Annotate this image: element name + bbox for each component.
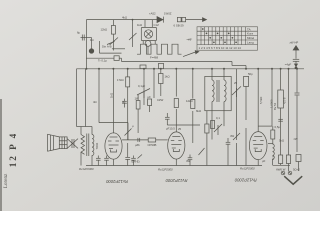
resistor horizontal (148, 138, 156, 142)
tube3 top frame (257, 69, 259, 132)
wires to tube3 right (268, 143, 273, 145)
crossed wires speaker-transformer (67, 139, 78, 149)
svg-text:zW: zW (294, 137, 298, 141)
resistor R4 (136, 101, 140, 110)
svg-text:1W0Z: 1W0Z (164, 12, 172, 16)
bottom rail (86, 165, 262, 167)
svg-text:≈4pF: ≈4pF (285, 63, 292, 67)
oscillator circle2 (145, 41, 151, 47)
tube V1 (105, 133, 122, 159)
svg-text:0,1: 0,1 (216, 116, 220, 120)
wire h y48.8 (112, 48, 125, 50)
junction dots on bus (85, 68, 298, 70)
svg-text:F=468: F=468 (150, 56, 158, 60)
svg-text:Rv12P2000: Rv12P2000 (234, 178, 257, 183)
flipped tube labels (105, 178, 256, 184)
middle coupling (86, 69, 262, 166)
svg-text:1kΩ: 1kΩ (165, 75, 170, 79)
wire to arrow (186, 19, 203, 21)
svg-text:Rv12P2000: Rv12P2000 (79, 167, 94, 171)
svg-text:1kΩ: 1kΩ (110, 93, 114, 98)
svg-text:4W: 4W (186, 159, 191, 163)
capacitor right column (278, 118, 283, 120)
diode D1 (157, 17, 163, 23)
resistor R5 (174, 99, 178, 108)
svg-text:5,5kΩ: 5,5kΩ (259, 97, 263, 104)
svg-text:1W: 1W (135, 97, 140, 101)
svg-text:5kΩ: 5kΩ (279, 139, 284, 143)
arrow head right (203, 18, 207, 22)
wire osc to top line (144, 20, 146, 28)
jack symbols (281, 171, 285, 175)
capacitor row y100 (124, 99, 126, 101)
verticals from bus (76, 69, 78, 127)
svg-text:μ#b: μ#b (135, 143, 140, 147)
transformer Tr1 zigzag primary (81, 135, 85, 155)
small comp on bus (140, 65, 146, 69)
trimmer C (244, 76, 249, 86)
anode frame tube1 (99, 122, 128, 124)
tube V3 (249, 132, 267, 160)
table contact dots (202, 28, 237, 43)
cap C left of tube1 (97, 156, 99, 159)
wires transformer (80, 127, 82, 135)
wire top horizontal (86, 19, 157, 21)
svg-text:1 2 3 4 5 6 7 8 9 10 11 12 13: 1 2 3 4 5 6 7 8 9 10 11 12 13 14 (199, 46, 242, 50)
component value labels (77, 12, 300, 172)
coil L2 (224, 80, 226, 102)
svg-text:(Ds-E): (Ds-E) (132, 160, 140, 164)
svg-text:12kΩ: 12kΩ (186, 99, 193, 103)
capacitor C (127, 143, 129, 157)
svg-text:C1Z: C1Z (154, 23, 160, 27)
svg-text:Rv12P2000: Rv12P2000 (165, 178, 188, 183)
mixer U1 circle with X (144, 30, 152, 38)
svg-text:μF: μF (262, 159, 266, 163)
resistor R6 (191, 100, 195, 109)
svg-text:Rv12P2000: Rv12P2000 (158, 167, 173, 171)
svg-text:4kΩ: 4kΩ (122, 15, 127, 19)
variable arrow mid-left (125, 129, 132, 136)
tubes (105, 132, 267, 166)
svg-text:700Ω: 700Ω (95, 143, 99, 150)
wire h y57 (86, 57, 114, 59)
variable arrow C trim (129, 33, 137, 40)
svg-text:12kΩ: 12kΩ (101, 28, 108, 32)
left page edge shadow (0, 99, 1, 211)
resistor R3 (159, 74, 163, 84)
svg-text:4W: 4W (230, 134, 235, 138)
core lines (216, 80, 218, 102)
svg-text:12 P 4: 12 P 4 (8, 132, 18, 167)
svg-text:6kΩ: 6kΩ (196, 109, 201, 113)
svg-text:1Ω: 1Ω (90, 38, 94, 42)
svg-text:25: 25 (178, 127, 182, 131)
cap C right of tube1 (133, 156, 135, 159)
svg-text:Lang: Lang (247, 41, 254, 45)
svg-text:AW6 W: AW6 W (276, 167, 286, 171)
svg-text:0,1μF: 0,1μF (138, 84, 145, 88)
wire h (122, 139, 148, 141)
wire from node A down (132, 20, 134, 47)
svg-text:Tr 0,1μ: Tr 0,1μ (98, 59, 107, 63)
ground chassis (284, 176, 302, 184)
svg-text:zW HP: zW HP (290, 41, 299, 45)
svg-text:25: 25 (234, 81, 238, 85)
svg-text:μF: μF (122, 100, 126, 104)
node A (132, 19, 134, 21)
capacitor C6 chain (166, 113, 168, 117)
capacitor C1 stub (81, 37, 87, 39)
svg-text:17kΩ: 17kΩ (117, 78, 124, 82)
svg-text:1kΩ: 1kΩ (137, 23, 142, 27)
rotated value labels (95, 93, 286, 160)
svg-text:+A52: +A52 (149, 12, 156, 16)
svg-text:Mittel: Mittel (247, 36, 255, 40)
svg-text:≈#8°: ≈#8° (187, 38, 193, 42)
svg-text:Kurz: Kurz (247, 32, 254, 36)
svg-text:4,5-8: 4,5-8 (283, 97, 287, 104)
capacitor C5 (148, 99, 152, 106)
cap right of tube2 (189, 155, 191, 158)
series capacitor on line (137, 138, 139, 142)
switch lever S1 (183, 52, 196, 57)
antenna (293, 46, 299, 69)
svg-text:6μ: 6μ (77, 31, 81, 35)
tube V2 (168, 132, 185, 159)
stage2 parts (205, 124, 209, 133)
wire top-left vertical (85, 20, 87, 69)
stage verticals (127, 69, 129, 77)
potentiometer P1 (86, 37, 91, 39)
speaker + output transformer (48, 127, 94, 166)
svg-text:50p: 50p (248, 72, 253, 76)
variable cap arrow2 (232, 86, 241, 95)
resistor R1 (111, 26, 115, 35)
band switch cam pulses (137, 44, 182, 54)
switch diagonal S2 (199, 148, 205, 155)
svg-text:C#W: C#W (157, 98, 164, 102)
svg-text:Lorenz: Lorenz (4, 173, 9, 188)
svg-text:μF10,5: μF10,5 (166, 127, 175, 131)
variable arrow on R1 (110, 38, 119, 46)
svg-text:5Ω+2: 5Ω+2 (293, 167, 300, 171)
capacitor block 0,1u (114, 56, 119, 61)
IF transformer box T1 (205, 76, 231, 110)
oscillator box (141, 27, 156, 40)
table row labels (199, 27, 255, 50)
svg-text:Bv 52: Bv 52 (273, 102, 277, 110)
lower section wires (77, 69, 300, 155)
resistor R2 (126, 77, 130, 87)
svg-text:Rv12P2000: Rv12P2000 (105, 179, 128, 184)
fuse Si (177, 17, 181, 21)
coil L1 (212, 80, 214, 102)
right output section (268, 119, 302, 184)
wire h y61.5 to switch table (122, 61, 233, 63)
band switch contact table S2 (197, 27, 258, 50)
coil L4 (273, 144, 275, 159)
variable cap arrow1 (137, 89, 150, 96)
svg-text:0,1: 0,1 (271, 156, 275, 160)
main bus wire (77, 68, 305, 70)
svg-text:Din A-B: Din A-B (102, 45, 112, 49)
transformer secondary (92, 135, 94, 156)
svg-text:CP90B: CP90B (148, 143, 157, 147)
speaker LS (59, 137, 67, 149)
antenna coil (278, 90, 284, 108)
svg-text:Rv12P2000: Rv12P2000 (240, 166, 255, 170)
svg-text:6 SB-29: 6 SB-29 (174, 24, 185, 28)
svg-text:4Ω: 4Ω (93, 100, 97, 104)
svg-text:0,5μ: 0,5μ (275, 125, 281, 129)
svg-text:μF: μF (148, 95, 152, 99)
transformer core (86, 134, 88, 157)
